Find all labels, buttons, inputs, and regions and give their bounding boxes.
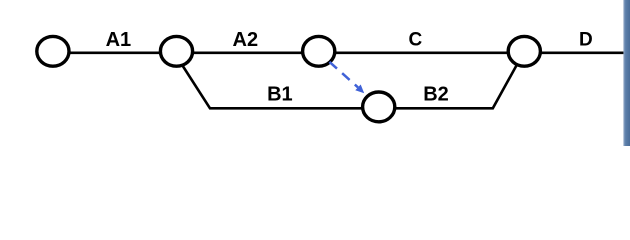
wire B1 (N2 down to bottom rail, to N5) bbox=[177, 57, 379, 108]
svg-text:A1: A1 bbox=[106, 29, 132, 51]
node N5 (bottom) bbox=[363, 92, 395, 122]
wire B2 (N5 along bottom rail, up to N4) bbox=[379, 51, 525, 108]
dashed arrow head bbox=[355, 85, 364, 94]
svg-text:A2: A2 bbox=[233, 29, 259, 51]
svg-text:B1: B1 bbox=[267, 84, 293, 106]
node N3 bbox=[303, 36, 335, 66]
node N4 bbox=[508, 36, 540, 66]
dummy activity dashed arrow (N3 to N5) bbox=[330, 62, 359, 88]
svg-text:D: D bbox=[579, 29, 593, 50]
svg-text:B2: B2 bbox=[423, 84, 449, 106]
node N2 bbox=[160, 36, 192, 66]
svg-text:C: C bbox=[409, 29, 423, 50]
wire A2 (N2 to N3) bbox=[177, 51, 319, 54]
node N1 (start) bbox=[37, 36, 69, 66]
wire A1 (N1 to N2) bbox=[53, 51, 177, 54]
wire C (N3 to N4) bbox=[319, 51, 525, 54]
wire D (N4 to right bar) bbox=[524, 51, 624, 54]
